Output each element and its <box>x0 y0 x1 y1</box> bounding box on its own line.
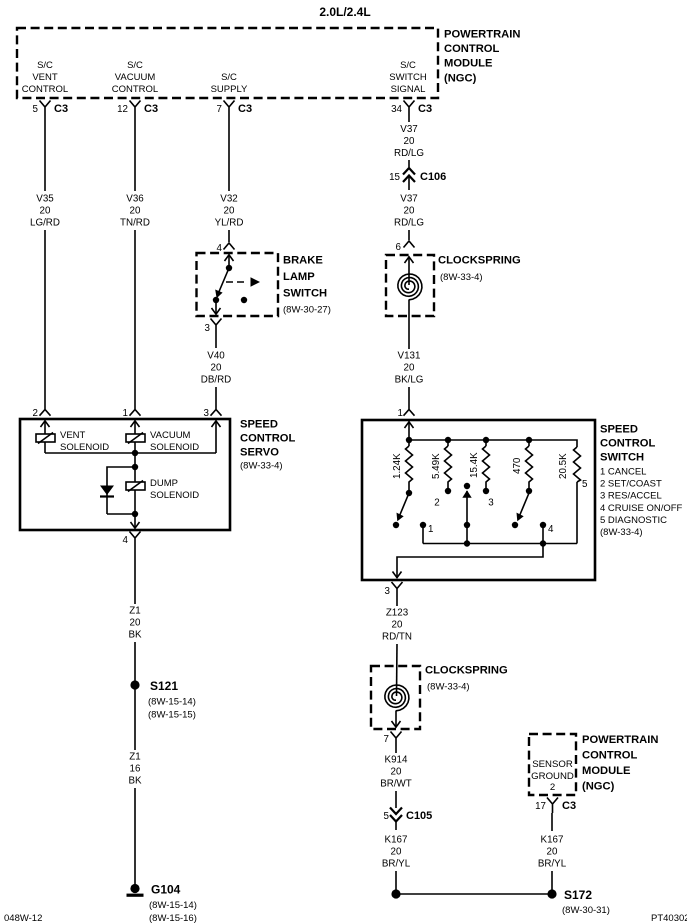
brake lamp switch contact node right <box>241 297 247 303</box>
sensor ground dashed box <box>529 734 576 795</box>
servo connector pin 1 <box>123 408 141 419</box>
label POWERTRAIN CONTROL MODULE (NGC) 2 <box>582 734 658 793</box>
wire V36 lower <box>134 230 136 409</box>
svg-text:SOLENOID: SOLENOID <box>150 490 199 501</box>
wire bus to dump branch <box>134 453 136 482</box>
label Z123 20 RD/TN <box>382 608 412 643</box>
switch pin 1 entry arrow <box>405 422 414 441</box>
switch exit arrow <box>393 572 402 578</box>
svg-text:C106: C106 <box>420 171 446 183</box>
svg-text:BR/WT: BR/WT <box>380 779 412 790</box>
svg-text:C3: C3 <box>418 103 432 115</box>
clockspring C1 coil <box>398 274 422 300</box>
wire vent solenoid to bus <box>44 442 46 453</box>
servo connector pin 4 <box>123 532 141 547</box>
svg-text:(NGC): (NGC) <box>582 781 615 793</box>
servo pin 2 entry arrow <box>41 421 50 435</box>
label 470 <box>512 457 523 474</box>
svg-text:20: 20 <box>391 767 402 778</box>
svg-text:20: 20 <box>224 206 235 217</box>
svg-text:(8W-15-16): (8W-15-16) <box>149 913 197 924</box>
svg-text:C105: C105 <box>406 810 432 822</box>
label 2 set/coast <box>434 498 439 509</box>
svg-text:6: 6 <box>396 242 402 253</box>
junction bus R3 <box>483 437 489 443</box>
svg-text:YL/RD: YL/RD <box>215 218 244 229</box>
wire V40 lower <box>215 387 217 409</box>
wire to C106 <box>408 160 410 167</box>
resistor R2 5.49K <box>445 440 452 488</box>
brake lamp switch exit arrow <box>212 300 221 315</box>
svg-text:S/C: S/C <box>127 60 143 71</box>
svg-text:34: 34 <box>391 104 402 115</box>
label 4 cruise out <box>548 524 554 535</box>
lever cruise on/off <box>517 493 530 521</box>
svg-text:S121: S121 <box>150 679 178 693</box>
svg-text:RD/TN: RD/TN <box>382 632 412 643</box>
clockspring C2 exit arrow <box>392 711 401 728</box>
junction R2 bottom <box>445 488 451 494</box>
svg-text:15: 15 <box>389 172 400 183</box>
contact cancel <box>393 522 399 528</box>
label DUMP SOLENOID <box>150 478 199 501</box>
svg-text:C3: C3 <box>54 103 68 115</box>
svg-text:V131: V131 <box>398 351 421 362</box>
svg-text:(8W-33-4): (8W-33-4) <box>240 461 283 472</box>
label CLOCKSPRING 2 (8W-33-4) <box>425 665 508 693</box>
svg-text:SWITCH: SWITCH <box>389 72 427 83</box>
title 2.0L/2.4L <box>319 5 370 19</box>
svg-text:K914: K914 <box>385 755 408 766</box>
junction bus R2 <box>445 437 451 443</box>
svg-text:CONTROL: CONTROL <box>600 438 655 450</box>
rocker lever set/resume <box>462 483 471 544</box>
clockspring C1 dashed box <box>386 255 434 316</box>
svg-text:POWERTRAIN: POWERTRAIN <box>582 734 658 746</box>
label V40 20 DB/RD <box>201 351 231 386</box>
brake lamp switch lever <box>215 268 229 298</box>
label K167 20 BR/YL left <box>382 835 411 870</box>
svg-text:20: 20 <box>404 206 415 217</box>
svg-text:20: 20 <box>404 363 415 374</box>
label V36 20 TN/RD <box>120 194 150 229</box>
svg-text:LAMP: LAMP <box>283 271 315 283</box>
svg-text:20: 20 <box>40 206 51 217</box>
svg-text:5: 5 <box>582 479 588 490</box>
svg-text:16: 16 <box>130 764 141 775</box>
svg-text:LG/RD: LG/RD <box>30 218 60 229</box>
wire Z1 upper <box>134 546 136 604</box>
svg-text:20: 20 <box>404 136 415 147</box>
wire diode branch top <box>107 467 135 486</box>
wire Z1 to splice <box>134 642 136 684</box>
label S121 <box>148 679 196 721</box>
svg-text:SOLENOID: SOLENOID <box>150 442 199 453</box>
svg-text:K167: K167 <box>541 835 564 846</box>
switch right rail wire <box>576 482 578 544</box>
svg-text:BK/LG: BK/LG <box>395 375 424 386</box>
wire K167 left lower <box>395 871 397 894</box>
junction bus R1 <box>406 437 412 443</box>
svg-text:20: 20 <box>392 620 403 631</box>
servo connector pin 3 <box>204 408 222 419</box>
svg-text:BK: BK <box>128 630 142 641</box>
label 048W-12 <box>4 913 42 924</box>
servo internal bus wire <box>45 452 216 454</box>
svg-text:12: 12 <box>117 104 128 115</box>
switch output wire <box>397 544 543 579</box>
svg-text:C3: C3 <box>238 103 252 115</box>
svg-text:(8W-33-4): (8W-33-4) <box>440 272 483 283</box>
svg-text:CLOCKSPRING: CLOCKSPRING <box>438 255 521 267</box>
label POWERTRAIN CONTROL MODULE (NGC) <box>444 29 520 85</box>
svg-text:4 CRUISE ON/OFF: 4 CRUISE ON/OFF <box>600 503 683 514</box>
svg-text:Z1: Z1 <box>129 752 140 763</box>
svg-text:1: 1 <box>123 408 128 419</box>
svg-text:(8W-33-4): (8W-33-4) <box>427 682 470 693</box>
svg-text:3: 3 <box>204 408 210 419</box>
label SPEED CONTROL SWITCH <box>600 424 655 464</box>
brake lamp switch contact node bottom <box>213 297 219 303</box>
svg-text:V35: V35 <box>36 194 54 205</box>
svg-text:4: 4 <box>548 524 554 535</box>
svg-text:SIGNAL: SIGNAL <box>391 84 426 95</box>
svg-text:4: 4 <box>123 535 129 546</box>
svg-text:5: 5 <box>384 811 390 822</box>
svg-text:2: 2 <box>550 782 555 793</box>
junction dump branch bottom <box>132 511 138 517</box>
svg-text:SOLENOID: SOLENOID <box>60 442 109 453</box>
svg-text:S/C: S/C <box>37 60 53 71</box>
svg-text:3: 3 <box>205 323 211 334</box>
wire Z123 upper <box>396 597 398 606</box>
svg-text:SUPPLY: SUPPLY <box>211 84 248 95</box>
svg-text:20.5K: 20.5K <box>558 453 569 479</box>
svg-text:(8W-30-31): (8W-30-31) <box>562 905 610 916</box>
svg-text:5 DIAGNOSTIC: 5 DIAGNOSTIC <box>600 515 667 526</box>
switch top bus wire <box>409 440 577 447</box>
svg-text:VACUUM: VACUUM <box>115 72 156 83</box>
svg-text:BR/YL: BR/YL <box>538 859 567 870</box>
svg-text:470: 470 <box>512 457 523 474</box>
label Z1 16 BK <box>128 752 142 787</box>
svg-text:2.0L/2.4L: 2.0L/2.4L <box>319 5 370 19</box>
connector pin 34 C3 <box>391 101 432 117</box>
svg-text:BK: BK <box>128 776 142 787</box>
wire V35 upper <box>44 116 46 191</box>
wire to clockspring <box>408 230 410 240</box>
pin label S/C VENT CONTROL <box>22 60 68 95</box>
connector pin 6 clockspring <box>396 241 415 253</box>
wire V131 lower <box>408 387 410 409</box>
svg-text:MODULE: MODULE <box>444 58 493 70</box>
clockspring C2 dashed box <box>371 666 420 729</box>
svg-text:20: 20 <box>130 206 141 217</box>
svg-text:BR/YL: BR/YL <box>382 859 411 870</box>
svg-text:CONTROL: CONTROL <box>240 433 295 445</box>
svg-text:C3: C3 <box>562 800 576 812</box>
svg-text:20: 20 <box>547 847 558 858</box>
label V131 20 BK/LG <box>395 351 424 386</box>
label 5.49K <box>431 453 442 479</box>
svg-text:K167: K167 <box>385 835 408 846</box>
svg-text:3: 3 <box>385 586 391 597</box>
label VACUUM SOLENOID <box>150 430 199 453</box>
wire K167 right upper <box>551 813 553 831</box>
label 20.5K <box>558 453 569 479</box>
svg-text:2: 2 <box>434 498 439 509</box>
wire vacuum solenoid to bus <box>134 442 136 453</box>
wire V35 lower <box>44 230 46 409</box>
diode <box>100 486 114 515</box>
svg-text:V37: V37 <box>400 194 417 205</box>
junction R3 bottom <box>483 488 489 494</box>
svg-text:CLOCKSPRING: CLOCKSPRING <box>425 665 508 677</box>
svg-text:2: 2 <box>33 408 38 419</box>
svg-text:DB/RD: DB/RD <box>201 375 231 386</box>
powertrain control module (NGC) dashed box <box>17 28 438 98</box>
svg-text:PT40302rf: PT40302rf <box>651 913 687 924</box>
junction dump branch top <box>132 464 138 470</box>
svg-text:S172: S172 <box>564 888 592 902</box>
svg-text:VENT: VENT <box>32 72 58 83</box>
connector pin 17 C3 <box>535 798 576 814</box>
label 3 res/accel <box>488 498 494 509</box>
svg-text:S/C: S/C <box>221 72 237 83</box>
wire V36 upper <box>134 116 136 191</box>
svg-text:20: 20 <box>391 847 402 858</box>
servo pin 3 entry arrow <box>212 421 221 454</box>
connector pin 5 C3 <box>33 101 69 117</box>
label 15.4K <box>469 452 480 478</box>
resistor R1 1.24K <box>406 440 413 490</box>
label V37 20 RD/LG lower <box>394 194 424 229</box>
label VENT SOLENOID <box>60 430 109 453</box>
svg-text:1.24K: 1.24K <box>392 453 403 479</box>
svg-text:Z1: Z1 <box>129 606 140 617</box>
junction servo bus <box>132 450 138 456</box>
connector C106 pin 15 <box>389 168 446 190</box>
pin label S/C SWITCH SIGNAL <box>389 60 427 95</box>
svg-text:048W-12: 048W-12 <box>4 913 42 924</box>
svg-text:1: 1 <box>428 524 433 535</box>
label BRAKE LAMP SWITCH (8W-30-27) <box>283 255 331 316</box>
connector pin 3 brake lamp switch <box>205 319 222 335</box>
svg-text:15.4K: 15.4K <box>469 452 480 478</box>
label SENSOR GROUND 2 <box>531 759 574 793</box>
svg-text:(8W-33-4): (8W-33-4) <box>600 527 643 538</box>
svg-text:5.49K: 5.49K <box>431 453 442 479</box>
svg-text:VACUUM: VACUUM <box>150 430 191 441</box>
wire Z1 16 to ground <box>134 788 136 885</box>
svg-text:BRAKE: BRAKE <box>283 255 323 267</box>
svg-text:SERVO: SERVO <box>240 447 279 459</box>
label switch position list <box>600 467 683 539</box>
svg-text:V37: V37 <box>400 124 417 135</box>
label S172 <box>562 888 610 916</box>
vacuum solenoid <box>126 433 145 444</box>
svg-text:RD/LG: RD/LG <box>394 148 424 159</box>
label SPEED CONTROL SERVO (8W-33-4) <box>240 419 295 472</box>
junction R1 bottom <box>406 490 412 496</box>
svg-text:CONTROL: CONTROL <box>22 84 68 95</box>
svg-text:7: 7 <box>217 104 222 115</box>
label pin 5 diagnostic <box>582 479 588 490</box>
svg-text:1: 1 <box>398 408 403 419</box>
dump solenoid <box>126 481 145 492</box>
svg-text:5: 5 <box>33 104 39 115</box>
wire Z1 16 upper <box>134 689 136 750</box>
label CLOCKSPRING (8W-33-4) <box>438 255 521 284</box>
vent solenoid <box>36 433 55 444</box>
connector pin 7 C3 <box>217 101 253 117</box>
svg-text:SWITCH: SWITCH <box>283 288 327 300</box>
speed control switch box <box>362 420 595 580</box>
clockspring C1 exit wire <box>408 300 410 350</box>
svg-text:SENSOR: SENSOR <box>532 759 573 770</box>
label K167 20 BR/YL right <box>538 835 567 870</box>
connector C105 pin 5 <box>384 808 433 831</box>
junction bus R4 <box>526 437 532 443</box>
connector pin 7 clockspring 2 <box>384 732 402 747</box>
splice S172 <box>547 889 556 898</box>
svg-text:(8W-15-15): (8W-15-15) <box>148 710 196 721</box>
label K914 20 BR/WT <box>380 755 412 790</box>
label Z1 20 BK <box>128 606 142 641</box>
wire K914 to C105 <box>395 791 397 808</box>
svg-text:MODULE: MODULE <box>582 765 631 777</box>
servo pin 1 entry arrow <box>131 421 140 435</box>
svg-text:(NGC): (NGC) <box>444 73 477 85</box>
svg-text:CONTROL: CONTROL <box>582 750 637 762</box>
junction rocker wiper row <box>464 522 470 528</box>
junction bus2 rocker <box>464 540 470 546</box>
ground G104 <box>127 884 144 897</box>
svg-text:2 SET/COAST: 2 SET/COAST <box>600 479 662 490</box>
brake lamp switch entry arrow <box>225 255 234 269</box>
svg-text:V40: V40 <box>207 351 225 362</box>
switch connector pin 3 <box>385 582 403 597</box>
svg-text:SWITCH: SWITCH <box>600 452 644 464</box>
label V35 20 LG/RD <box>30 194 60 229</box>
speed control servo box <box>20 419 230 530</box>
svg-text:POWERTRAIN: POWERTRAIN <box>444 29 520 41</box>
svg-text:(8W-15-14): (8W-15-14) <box>148 697 196 708</box>
switch connector pin 1 <box>398 408 415 419</box>
pin label S/C SUPPLY <box>211 72 248 95</box>
lever cancel <box>397 493 410 521</box>
wire V32 upper <box>228 116 230 191</box>
svg-text:CONTROL: CONTROL <box>444 43 499 55</box>
wire V32 lower <box>228 230 230 242</box>
contact 1 cancel out <box>420 522 426 544</box>
svg-text:CONTROL: CONTROL <box>112 84 158 95</box>
svg-text:SPEED: SPEED <box>240 419 278 431</box>
label G104 <box>149 883 197 924</box>
label 1.24K <box>392 453 403 479</box>
svg-text:G104: G104 <box>151 883 181 897</box>
contact cruise <box>512 522 518 528</box>
wire diode branch bottom <box>107 513 135 515</box>
svg-text:DUMP: DUMP <box>150 478 178 489</box>
svg-text:VENT: VENT <box>60 430 86 441</box>
switch bottom bus wire <box>423 543 577 545</box>
connector pin 12 C3 <box>117 101 158 117</box>
svg-text:V36: V36 <box>126 194 144 205</box>
contact 4 cruise out <box>540 522 546 544</box>
junction R4 bottom <box>526 488 532 494</box>
svg-text:S/C: S/C <box>400 60 416 71</box>
wire Z123 to clockspring <box>396 644 399 696</box>
svg-text:V32: V32 <box>220 194 237 205</box>
splice S121 <box>130 680 139 689</box>
wire K914 upper <box>395 746 397 753</box>
svg-text:3 RES/ACCEL: 3 RES/ACCEL <box>600 491 662 502</box>
svg-text:(8W-15-14): (8W-15-14) <box>149 900 197 911</box>
label V37 20 RD/LG upper <box>394 124 424 159</box>
svg-text:GROUND: GROUND <box>531 771 574 782</box>
svg-text:(8W-30-27): (8W-30-27) <box>283 305 331 316</box>
svg-text:C3: C3 <box>144 103 158 115</box>
svg-text:TN/RD: TN/RD <box>120 218 150 229</box>
wire dump solenoid down <box>134 490 136 528</box>
wire V37 upper <box>408 116 410 122</box>
wire K167 right lower <box>551 871 553 894</box>
junction K167 corner <box>391 889 400 898</box>
brake lamp switch actuator arrow <box>226 277 260 287</box>
clockspring C2 coil <box>385 685 409 711</box>
servo connector pin 2 <box>33 408 51 419</box>
pin label S/C VACUUM CONTROL <box>112 60 158 95</box>
svg-text:20: 20 <box>130 618 141 629</box>
svg-text:RD/LG: RD/LG <box>394 218 424 229</box>
svg-text:SPEED: SPEED <box>600 424 638 436</box>
svg-text:17: 17 <box>535 801 546 812</box>
brake lamp switch contact node top <box>226 265 232 271</box>
label V32 20 YL/RD <box>215 194 244 229</box>
svg-text:Z123: Z123 <box>386 608 409 619</box>
wire splice bus <box>396 893 552 895</box>
wire V40 upper <box>215 334 217 348</box>
resistor R5 20.5K <box>574 447 581 482</box>
servo exit arrow <box>131 522 140 528</box>
clockspring C1 entry arrow <box>405 257 414 286</box>
svg-text:1 CANCEL: 1 CANCEL <box>600 467 646 478</box>
svg-text:3: 3 <box>488 498 494 509</box>
label 1 cancel out <box>428 524 433 535</box>
resistor R4 470 <box>526 440 533 488</box>
svg-text:7: 7 <box>384 734 389 745</box>
connector pin 4 brake lamp switch <box>217 243 235 254</box>
label PT40302 <box>651 913 687 924</box>
resistor R3 15.4K <box>483 440 490 488</box>
junction bus2 pin4 <box>540 540 546 546</box>
brake lamp switch dashed box <box>197 253 279 316</box>
svg-text:20: 20 <box>211 363 222 374</box>
